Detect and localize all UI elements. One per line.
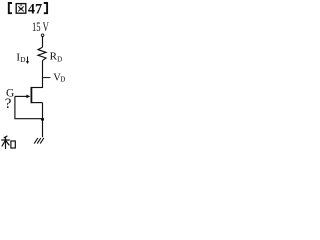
svg-text:47: 47 [28, 1, 43, 17]
svg-text:?: ? [5, 96, 12, 112]
svg-text:D: D [20, 55, 26, 64]
svg-text:D: D [60, 76, 65, 84]
svg-text:D: D [57, 55, 62, 63]
svg-text:15 V: 15 V [32, 20, 49, 34]
